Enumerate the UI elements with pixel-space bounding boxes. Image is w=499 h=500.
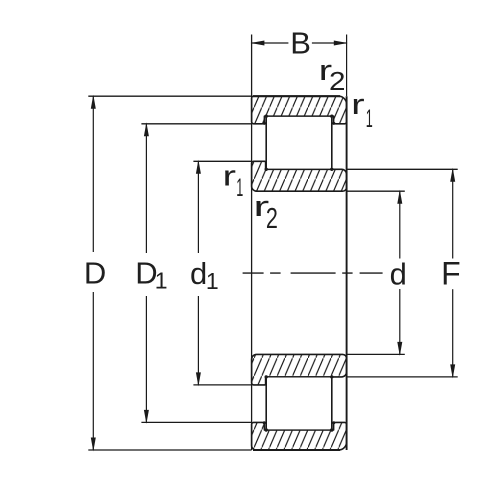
wire: right face edge of bearing	[346, 96, 348, 450]
centerline (dash-dot bearing axis)	[243, 272, 383, 274]
svg-text:1: 1	[155, 268, 168, 294]
wire: outer diameter edge, top	[253, 95, 340, 97]
fillet dots, outer ring rib corners	[263, 122, 336, 424]
dimension d: bore diameter, extension lines	[347, 191, 405, 354]
label d1	[190, 256, 219, 294]
svg-text:1: 1	[366, 105, 373, 133]
label r1 (outer ring OD chamfer, top right)	[351, 89, 373, 133]
dimension F: dimension line with arrows	[450, 168, 455, 379]
inner ring, bottom section (hatched, one rib)	[252, 354, 347, 385]
wire: left face projection/extension line	[251, 35, 253, 451]
svg-text:d: d	[390, 256, 407, 291]
dimension D: outer diameter, extension lines	[88, 96, 251, 450]
label r2 (inner ring face chamfer, left)	[253, 191, 278, 235]
dimension D1: outer ring rib diameter, extension lines	[141, 124, 251, 423]
svg-text:r: r	[351, 89, 365, 121]
fillet dots, top roller corners	[265, 115, 334, 172]
label r1 (inner ring rib radius, left)	[223, 161, 244, 203]
fillet dots, bottom roller corners	[265, 375, 334, 432]
svg-text:F: F	[441, 256, 461, 292]
svg-text:1: 1	[206, 268, 219, 294]
svg-text:D: D	[84, 256, 106, 291]
svg-text:B: B	[290, 26, 311, 61]
outer ring, bottom section (hatched, two ribs)	[252, 422, 347, 450]
svg-text:r: r	[223, 161, 237, 193]
wire: right face extension line above bearing	[346, 35, 348, 97]
wire: outer diameter edge, bottom	[253, 449, 340, 451]
svg-text:d: d	[190, 256, 207, 291]
dimension d1: dimension line with arrows	[196, 160, 201, 387]
dimension D1: dimension line with arrows	[144, 122, 149, 424]
svg-text:2: 2	[266, 203, 278, 235]
label r2 (outer ring face chamfer, top)	[319, 55, 346, 96]
svg-text:2: 2	[329, 66, 346, 96]
roller, top section	[266, 116, 332, 169]
outer ring, top section (hatched, two ribs)	[252, 96, 347, 124]
dimension d1: inner ring rib diameter, extension lines	[193, 161, 251, 385]
inner ring, top section (hatched, one rib)	[252, 161, 347, 191]
label D1	[135, 256, 167, 294]
roller, bottom section	[266, 377, 332, 430]
dimension B: width dimension line with arrows	[250, 41, 347, 46]
dimension d: dimension line with arrows	[397, 190, 402, 356]
dimension F: inner ring raceway diameter, extension lines	[347, 169, 458, 377]
svg-text:1: 1	[236, 174, 243, 202]
dimension D: dimension line with arrows	[91, 95, 96, 452]
